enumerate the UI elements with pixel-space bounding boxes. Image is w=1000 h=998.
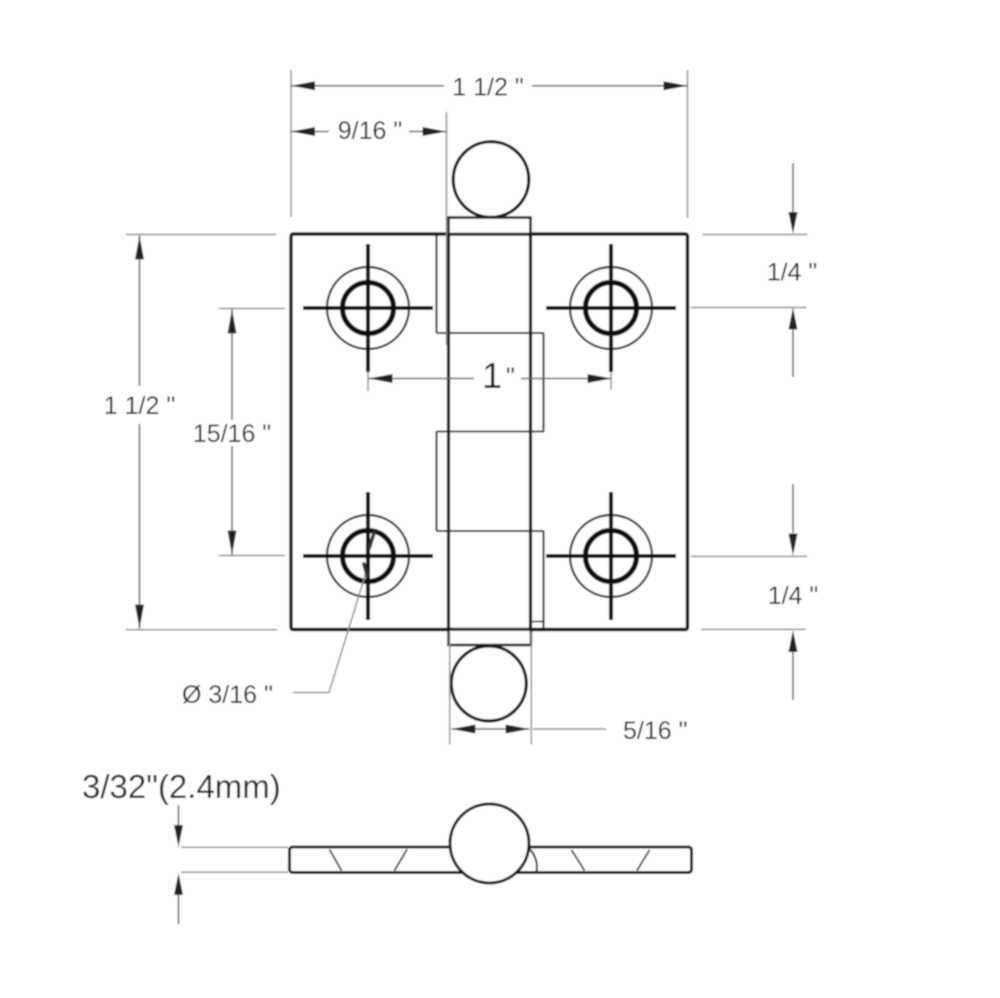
dimension 9/16 inch bbox=[291, 112, 447, 345]
knuckle strip upper-right bbox=[542, 333, 544, 432]
svg-text:1 1/2 ": 1 1/2 " bbox=[104, 392, 175, 420]
knuckle fillet arc bbox=[530, 849, 537, 872]
svg-text:3/32"(2.4mm): 3/32"(2.4mm) bbox=[82, 768, 281, 805]
svg-text:Ø 3/16 ": Ø 3/16 " bbox=[182, 681, 273, 709]
svg-text:9/16 ": 9/16 " bbox=[338, 117, 402, 145]
knuckle division 2 bbox=[437, 430, 545, 432]
screw hole top-left bbox=[303, 244, 433, 372]
svg-text:": " bbox=[506, 363, 515, 391]
bottom ball tip bbox=[451, 646, 526, 721]
dimension 1 1/2 inch top width bbox=[291, 70, 688, 218]
bottom collar bbox=[449, 630, 532, 646]
svg-text:15/16 ": 15/16 " bbox=[193, 420, 271, 448]
top finial collar bbox=[449, 218, 531, 235]
hinge leaf plate (front view) bbox=[291, 234, 688, 630]
svg-text:1/4 ": 1/4 " bbox=[767, 259, 818, 287]
knuckle strip lower-right bbox=[542, 531, 544, 628]
svg-text:1/4 ": 1/4 " bbox=[768, 582, 819, 610]
side view barrel ball bbox=[450, 804, 529, 883]
label diameter 3/16 inch with leader bbox=[182, 532, 375, 710]
dimension 3/32 inch leaf thickness bbox=[82, 768, 288, 924]
screw hole bottom-right bbox=[546, 492, 676, 620]
screw hole top-right bbox=[546, 244, 676, 372]
dimension 15/16 inch bbox=[193, 309, 285, 556]
side view leaf bar bbox=[290, 847, 692, 873]
dimension 5/16 inch tip width bbox=[450, 632, 688, 745]
dimension 1/4 inch bottom right bbox=[691, 484, 818, 700]
knuckle division 3 bbox=[437, 530, 545, 532]
knuckle strip lower-left bbox=[435, 432, 437, 532]
svg-text:1: 1 bbox=[482, 355, 502, 396]
dimension 1 inch screw spacing bbox=[368, 355, 612, 396]
screw hole bottom-left bbox=[303, 492, 433, 620]
knuckle division 1 bbox=[437, 332, 545, 334]
top ball finial bbox=[453, 142, 529, 218]
barrel left edge bbox=[447, 235, 450, 629]
svg-text:5/16 ": 5/16 " bbox=[623, 717, 687, 745]
barrel right edge bbox=[529, 235, 532, 629]
countersink marks left hole bbox=[330, 850, 342, 871]
svg-text:1 1/2 ": 1 1/2 " bbox=[452, 74, 523, 102]
knuckle strip lower-right bottom cap bbox=[531, 621, 545, 623]
countersink marks right hole bbox=[572, 850, 585, 871]
dimension 1/4 inch top right bbox=[691, 163, 817, 377]
dimension 1 1/2 inch left height bbox=[104, 235, 277, 630]
knuckle strip top-left bbox=[435, 236, 437, 334]
